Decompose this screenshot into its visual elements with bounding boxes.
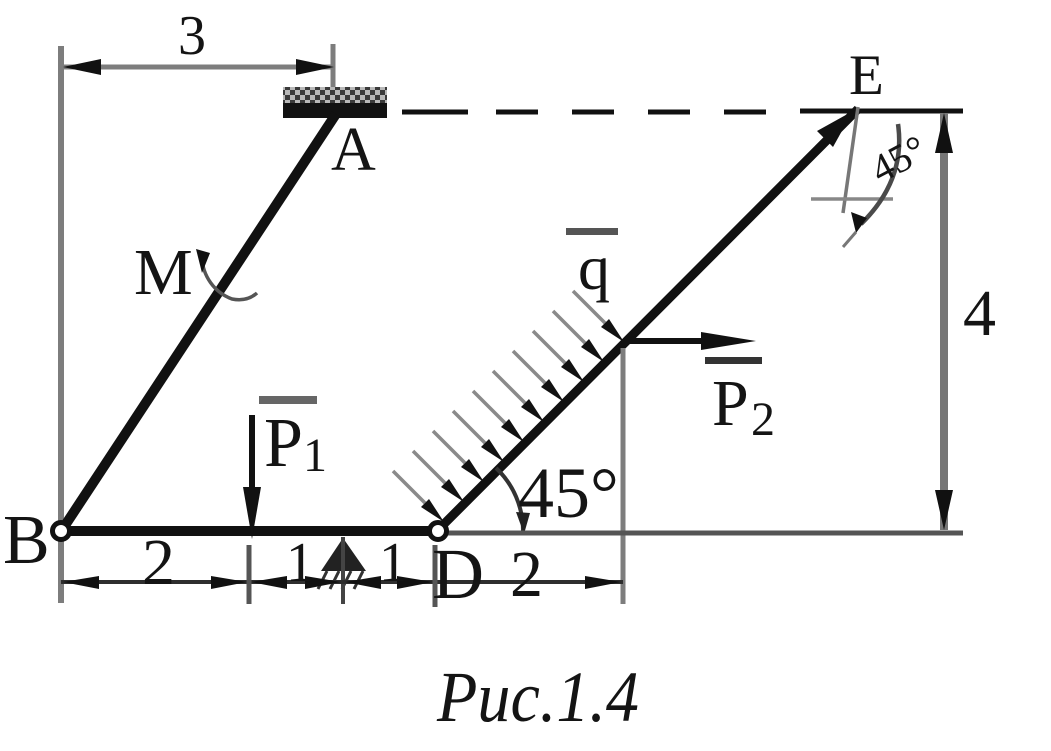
svg-text:3: 3 — [178, 5, 206, 67]
pin B — [53, 523, 70, 540]
extension line left (x=61) — [58, 46, 64, 603]
extension line above A (x=333) — [331, 44, 336, 92]
q load arrow — [413, 451, 445, 483]
extension line below P2 point (x=623) — [621, 348, 626, 604]
dim arrowhead right of tick 2|1 — [251, 576, 287, 589]
distributed load q arrows — [393, 291, 624, 522]
dim arrowhead left of support tick — [305, 576, 341, 589]
fixed support hatch at A — [283, 87, 387, 104]
q load arrow — [433, 431, 465, 463]
q load arrow — [453, 411, 485, 443]
q load arrow — [493, 371, 525, 403]
fixed support bar at A — [283, 103, 387, 118]
45 deg arc arrowhead at D — [516, 512, 530, 534]
bottom dimension line — [61, 580, 623, 584]
E angle arc — [861, 124, 899, 224]
q load arrow — [513, 351, 545, 383]
q load arrow — [553, 311, 585, 343]
svg-text:1: 1 — [303, 429, 327, 482]
dashed line A to E — [402, 110, 468, 115]
P2 overbar — [705, 357, 762, 364]
roller support center line — [341, 537, 345, 604]
svg-text:1: 1 — [286, 532, 314, 594]
tick x=435 — [433, 545, 438, 607]
E angle horizontal line — [811, 197, 893, 201]
P1 arrowhead — [243, 487, 261, 539]
svg-text:A: A — [331, 116, 376, 184]
bar DE end arrowhead at E — [817, 111, 853, 147]
dimension line 3 — [63, 65, 334, 70]
svg-text:q: q — [578, 232, 610, 303]
roller support hatches — [318, 571, 327, 589]
solid top line at E — [800, 109, 963, 114]
P2 arrowhead — [701, 332, 756, 350]
dim arrowhead right end — [585, 576, 621, 589]
horizontal extension line D to right — [447, 531, 963, 536]
E angle arrowhead — [851, 212, 867, 233]
svg-text:2: 2 — [751, 393, 775, 446]
force P1 arrow — [249, 415, 255, 495]
svg-text:Puc.1.4: Puc.1.4 — [436, 657, 639, 737]
tick x=249 — [247, 545, 252, 604]
q load arrow — [533, 331, 565, 363]
svg-text:1: 1 — [379, 532, 407, 594]
E angle arrow tail — [843, 232, 856, 247]
svg-text:2: 2 — [142, 526, 175, 599]
svg-text:P: P — [712, 367, 749, 440]
svg-text:4: 4 — [963, 277, 996, 350]
svg-text:45°: 45° — [518, 453, 619, 533]
dim arrowhead at B — [63, 576, 99, 589]
svg-text:2: 2 — [510, 538, 543, 611]
svg-text:P: P — [264, 405, 303, 482]
45 deg arc at D — [496, 468, 523, 531]
bar AB — [62, 114, 336, 530]
q overbar — [566, 228, 618, 235]
moment M arc — [202, 257, 257, 300]
dim arrowhead left of tick 2|1 — [211, 576, 247, 589]
dim arrowhead right of support tick — [345, 576, 381, 589]
bar DE — [438, 109, 858, 530]
q load arrow — [393, 471, 425, 503]
roller support triangle — [321, 538, 366, 571]
dimension line 4 (vertical right) — [940, 113, 948, 530]
q load arrow — [473, 391, 505, 423]
dim arrowhead at D — [397, 576, 433, 589]
E angle thin line — [843, 107, 858, 213]
force P2 arrow — [627, 338, 712, 344]
q load arrow — [573, 291, 605, 323]
svg-text:D: D — [432, 534, 484, 614]
svg-text:E: E — [849, 44, 884, 107]
bar BD — [56, 526, 441, 536]
dim-3 right arrowhead — [296, 59, 334, 75]
moment M arrowhead — [196, 249, 210, 273]
P1 overbar — [259, 396, 317, 404]
svg-text:B: B — [3, 502, 50, 579]
dim-4 top arrowhead — [935, 113, 953, 153]
pin D — [430, 523, 447, 540]
dim-3 left arrowhead — [63, 59, 101, 75]
svg-text:M: M — [134, 236, 193, 309]
dim-4 bottom arrowhead — [935, 490, 953, 530]
